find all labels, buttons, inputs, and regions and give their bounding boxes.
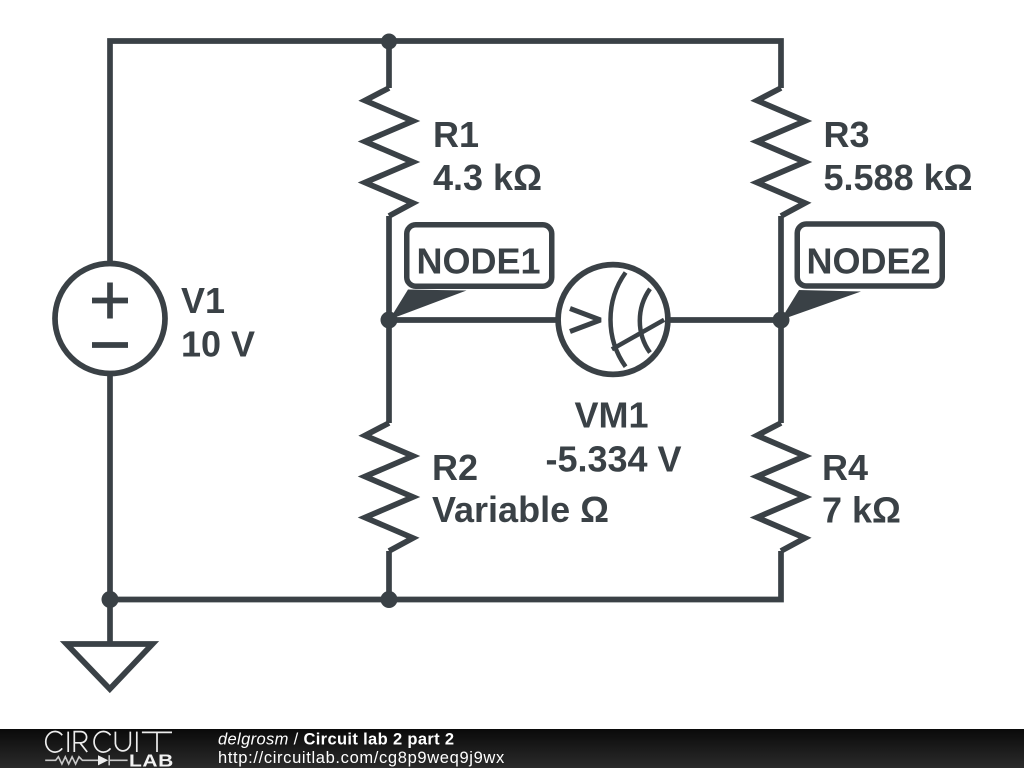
svg-text:R3: R3 <box>824 114 870 155</box>
wire ground stem <box>107 600 113 644</box>
svg-text:4.3 kΩ: 4.3 kΩ <box>433 157 542 198</box>
node NODE2 callout box <box>797 224 942 286</box>
footer bar <box>0 729 1024 768</box>
voltage source V1 <box>55 264 165 374</box>
svg-text:NODE2: NODE2 <box>807 241 931 282</box>
svg-text:VM1: VM1 <box>574 395 648 436</box>
junction dot top of R1 <box>381 34 397 50</box>
CircuitLab logo diode <box>98 755 108 765</box>
wire R2 to bottom <box>386 551 392 600</box>
svg-text:V1: V1 <box>181 280 225 321</box>
svg-text:delgrosm / Circuit lab 2 part: delgrosm / Circuit lab 2 part 2 <box>218 731 454 749</box>
wire node2 to R4 <box>778 320 784 423</box>
svg-text:7 kΩ: 7 kΩ <box>822 490 901 531</box>
wire voltmeter to node2 <box>668 317 781 323</box>
junction dot node NODE2 <box>773 312 790 329</box>
wire R1 to node1 <box>386 216 392 320</box>
resistor R2 <box>365 423 413 551</box>
svg-text:Variable Ω: Variable Ω <box>432 489 609 530</box>
resistor R4 <box>757 423 805 551</box>
svg-text:LAB: LAB <box>129 752 174 768</box>
node NODE1 callout tail <box>390 290 467 320</box>
wire node1 to voltmeter <box>389 317 558 323</box>
wire R3 to node2 <box>778 216 784 320</box>
CircuitLab logo CIRCUIT <box>46 732 172 753</box>
CircuitLab logo squiggle <box>45 755 127 765</box>
wire left rail + top rail (V1 top to R1/R3 tops) <box>110 41 781 263</box>
junction dot at ground tap <box>102 591 119 608</box>
svg-text:5.588 kΩ: 5.588 kΩ <box>824 157 973 198</box>
wire node1 to R2 <box>386 320 392 423</box>
ground symbol <box>67 644 153 689</box>
svg-text:R2: R2 <box>432 447 478 488</box>
svg-text:R1: R1 <box>433 114 479 155</box>
resistor R1 <box>365 88 413 216</box>
svg-text:NODE1: NODE1 <box>417 241 541 282</box>
wire R1 top stub <box>386 41 392 88</box>
node NODE1 callout box <box>407 225 552 287</box>
svg-text:R4: R4 <box>822 447 868 488</box>
junction dot node NODE1 <box>381 312 398 329</box>
node NODE2 callout tail <box>781 290 862 320</box>
svg-text:http://circuitlab.com/cg8p9weq: http://circuitlab.com/cg8p9weq9j9wx <box>218 749 505 767</box>
svg-text:-5.334 V: -5.334 V <box>545 439 681 480</box>
junction bottom of R2 <box>381 591 398 608</box>
resistor R3 <box>757 88 805 216</box>
voltmeter VM1 <box>558 265 668 375</box>
wire left rail + bottom rail (V1 bottom to R2/R4 bottoms) <box>110 374 781 600</box>
svg-text:10 V: 10 V <box>181 324 255 365</box>
